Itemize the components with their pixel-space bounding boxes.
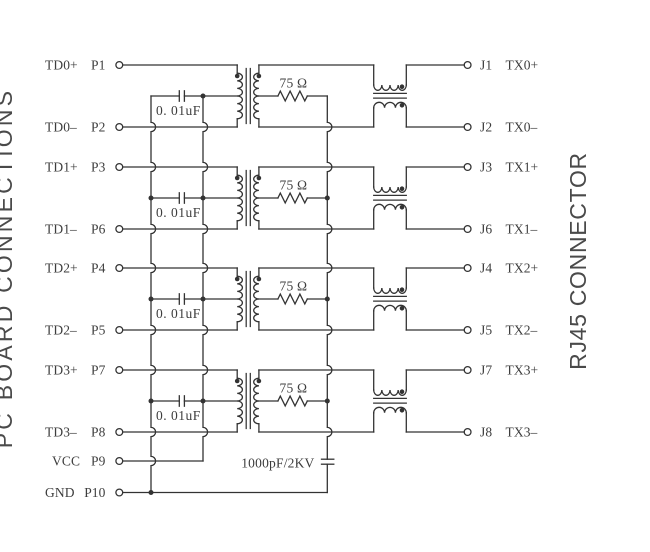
common-mode choke L3 <box>374 268 407 330</box>
svg-text:P9: P9 <box>91 453 106 468</box>
svg-text:J5: J5 <box>480 323 492 338</box>
svg-text:TX0–: TX0– <box>506 120 538 135</box>
wire: P8 row to transformer T4 primary bottom <box>123 431 237 433</box>
junction: GND rail / C3 row <box>149 297 154 302</box>
transformer T1 <box>237 65 259 127</box>
capacitor C4 0.01uF <box>179 396 184 406</box>
resistor R4 75 ohm <box>278 396 307 406</box>
wire: resistor R3 to common rail <box>307 298 327 300</box>
svg-text:75 Ω: 75 Ω <box>280 380 308 395</box>
svg-text:TD1+: TD1+ <box>45 159 78 174</box>
phase dot T2 primary <box>235 176 240 181</box>
junction: VCC rail / C1 row <box>201 94 206 99</box>
svg-text:P3: P3 <box>91 159 106 174</box>
junction: common rail / R4 <box>325 399 330 404</box>
svg-text:TD0+: TD0+ <box>45 57 78 72</box>
wire: choke L2 to J6 terminal <box>406 228 464 230</box>
phase dot T2 secondary <box>257 176 262 181</box>
svg-text:VCC: VCC <box>52 453 80 468</box>
wire: T2 secondary tap to resistor R2 <box>259 197 278 199</box>
terminal J3 <box>464 164 471 171</box>
svg-text:J4: J4 <box>480 261 492 276</box>
wire: P7 row to transformer T4 primary top <box>123 369 237 371</box>
phase dot T1 secondary <box>257 74 262 79</box>
terminal P6 <box>116 226 123 233</box>
terminal P9 <box>116 458 123 465</box>
wire: choke L4 to J7 terminal <box>406 369 464 371</box>
junction: VCC rail / C3 row <box>201 297 206 302</box>
wire: choke L4 to J8 terminal <box>406 431 464 433</box>
svg-text:TD0–: TD0– <box>45 119 77 134</box>
svg-text:P4: P4 <box>91 260 106 275</box>
svg-text:TD2+: TD2+ <box>45 260 78 275</box>
wire: resistor R2 to common rail <box>307 197 327 199</box>
svg-text:P8: P8 <box>91 424 106 439</box>
capacitor C3 0.01uF <box>179 294 184 304</box>
phase dot L3 bottom winding <box>400 306 405 311</box>
wire: T3 secondary top to choke L3 <box>259 267 374 269</box>
svg-text:TX0+: TX0+ <box>506 58 539 73</box>
GND rail (left vertical bus) <box>151 96 156 493</box>
terminal J4 <box>464 265 471 272</box>
common-mode choke L4 <box>374 370 407 432</box>
wire: T1 secondary bottom to choke L1 <box>259 126 374 128</box>
common-mode choke L1 <box>374 65 407 127</box>
termination common rail (to bottom capacitor) <box>327 96 332 459</box>
junction: VCC rail / C4 row <box>201 399 206 404</box>
svg-text:J3: J3 <box>480 160 492 175</box>
junction: VCC rail / C2 row <box>201 196 206 201</box>
svg-text:TD3–: TD3– <box>45 424 77 439</box>
junction: GND rail / C4 row <box>149 399 154 404</box>
svg-text:PC BOARD CONNECTIONS: PC BOARD CONNECTIONS <box>0 88 17 448</box>
phase dot T4 primary <box>235 379 240 384</box>
terminal J1 <box>464 62 471 69</box>
resistor R1 75 ohm <box>278 91 307 101</box>
svg-text:P10: P10 <box>84 485 105 500</box>
resistor R2 75 ohm <box>278 193 307 203</box>
terminal P2 <box>116 124 123 131</box>
wire: resistor R4 to common rail <box>307 400 327 402</box>
svg-text:TX2–: TX2– <box>506 323 538 338</box>
resistor R3 75 ohm <box>278 294 307 304</box>
svg-text:75 Ω: 75 Ω <box>280 278 308 293</box>
phase dot T4 secondary <box>257 379 262 384</box>
wire: choke L1 to J2 terminal <box>406 126 464 128</box>
wire: center-tap row (GND rail to T3 primary tap) with capacitor C3 <box>151 298 179 300</box>
phase dot T1 primary <box>235 74 240 79</box>
svg-text:P1: P1 <box>91 57 105 72</box>
phase dot L4 bottom winding <box>400 408 405 413</box>
terminal P4 <box>116 265 123 272</box>
wire: VCC P9 to VCC rail <box>123 460 203 462</box>
svg-text:P7: P7 <box>91 362 106 377</box>
transformer T3 <box>237 268 259 330</box>
wire: T3 secondary tap to resistor R3 <box>259 298 278 300</box>
wire: T2 secondary top to choke L2 <box>259 166 374 168</box>
svg-text:75 Ω: 75 Ω <box>280 177 308 192</box>
phase dot L2 top winding <box>400 186 405 191</box>
junction: GND rail / C2 row <box>149 196 154 201</box>
svg-text:75 Ω: 75 Ω <box>280 75 308 90</box>
transformer T2 <box>237 167 259 229</box>
terminal P5 <box>116 327 123 334</box>
phase dot L1 bottom winding <box>400 103 405 108</box>
terminal J8 <box>464 429 471 436</box>
capacitor C2 0.01uF <box>179 193 184 203</box>
svg-text:TD2–: TD2– <box>45 322 77 337</box>
transformer T4 <box>237 370 259 432</box>
phase dot T3 primary <box>235 277 240 282</box>
phase dot L4 top winding <box>400 389 405 394</box>
svg-text:0. 01uF: 0. 01uF <box>156 103 201 118</box>
svg-text:1000pF/2KV: 1000pF/2KV <box>241 455 314 470</box>
phase dot T3 secondary <box>257 277 262 282</box>
svg-text:0. 01uF: 0. 01uF <box>156 306 201 321</box>
svg-text:P6: P6 <box>91 221 106 236</box>
common-mode choke L2 <box>374 167 407 229</box>
terminal P10 <box>116 489 123 496</box>
wire: choke L3 to J4 terminal <box>406 267 464 269</box>
junction: common rail / R2 <box>325 196 330 201</box>
terminal P7 <box>116 367 123 374</box>
svg-text:J7: J7 <box>480 363 492 378</box>
svg-text:J2: J2 <box>480 120 492 135</box>
svg-text:0. 01uF: 0. 01uF <box>156 408 201 423</box>
phase dot L1 top winding <box>400 84 405 89</box>
svg-text:TD1–: TD1– <box>45 221 77 236</box>
phase dot L3 top winding <box>400 287 405 292</box>
terminal J7 <box>464 367 471 374</box>
wire: P5 row to transformer T3 primary bottom <box>123 329 237 331</box>
VCC rail (center-tap bus) <box>203 96 208 461</box>
svg-text:TX2+: TX2+ <box>506 261 539 276</box>
svg-text:J8: J8 <box>480 425 492 440</box>
wire: GND P10 to bottom capacitor <box>123 492 327 494</box>
wire: resistor R1 to common rail <box>307 95 327 97</box>
wire: T2 secondary bottom to choke L2 <box>259 228 374 230</box>
svg-text:P5: P5 <box>91 322 106 337</box>
wire: T4 secondary top to choke L4 <box>259 369 374 371</box>
wire: P2 row to transformer T1 primary bottom <box>123 126 237 128</box>
svg-text:GND: GND <box>45 485 75 500</box>
wire: P1 row to transformer T1 primary top <box>123 64 237 66</box>
wire: center-tap row (GND rail to T1 primary tap) with capacitor C1 <box>151 95 179 97</box>
svg-text:J6: J6 <box>480 222 492 237</box>
wire: T1 secondary tap to resistor R1 <box>259 95 278 97</box>
wire: C5 bottom to GND row <box>326 464 328 492</box>
svg-text:TX3+: TX3+ <box>506 363 539 378</box>
svg-text:TX1+: TX1+ <box>506 160 539 175</box>
wire: T4 secondary tap to resistor R4 <box>259 400 278 402</box>
wire: choke L2 to J3 terminal <box>406 166 464 168</box>
svg-text:P2: P2 <box>91 119 105 134</box>
svg-text:RJ45 CONNECTOR: RJ45 CONNECTOR <box>565 152 591 370</box>
phase dot L2 bottom winding <box>400 205 405 210</box>
terminal P3 <box>116 164 123 171</box>
junction: common rail / R3 <box>325 297 330 302</box>
svg-text:J1: J1 <box>480 58 492 73</box>
wire: choke L1 to J1 terminal <box>406 64 464 66</box>
terminal J2 <box>464 124 471 131</box>
wire: P6 row to transformer T2 primary bottom <box>123 228 237 230</box>
wire: center-tap row (GND rail to T4 primary tap) with capacitor C4 <box>151 400 179 402</box>
wire: P4 row to transformer T3 primary top <box>123 267 237 269</box>
wire: P3 row to transformer T2 primary top <box>123 166 237 168</box>
capacitor C5 1000pF/2KV <box>322 459 334 464</box>
terminal J6 <box>464 226 471 233</box>
svg-text:TD3+: TD3+ <box>45 362 78 377</box>
svg-text:TX1–: TX1– <box>506 222 538 237</box>
junction: GND rail / P10 wire <box>149 490 154 495</box>
wire: T3 secondary bottom to choke L3 <box>259 329 374 331</box>
svg-text:0. 01uF: 0. 01uF <box>156 205 201 220</box>
terminal J5 <box>464 327 471 334</box>
wire: T1 secondary top to choke L1 <box>259 64 374 66</box>
wire: choke L3 to J5 terminal <box>406 329 464 331</box>
svg-text:TX3–: TX3– <box>506 425 538 440</box>
wire: T4 secondary bottom to choke L4 <box>259 431 374 433</box>
capacitor C1 0.01uF <box>179 91 184 101</box>
terminal P1 <box>116 62 123 69</box>
wire: center-tap row (GND rail to T2 primary tap) with capacitor C2 <box>151 197 179 199</box>
terminal P8 <box>116 429 123 436</box>
